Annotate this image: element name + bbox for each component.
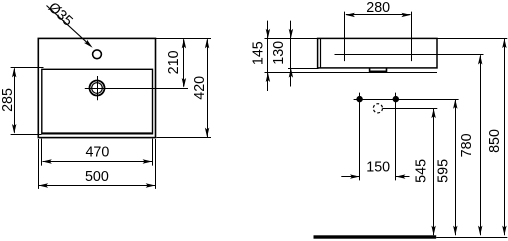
floor extension line [436,237,507,239]
dimension 780 [480,55,482,235]
drain boss under basin [370,68,387,71]
drain outer circle [90,81,105,96]
basin front inner edge (side view) [320,38,322,68]
svg-text:595: 595 [436,159,452,183]
svg-text:145: 145 [250,41,266,65]
dimension 595 [455,100,457,236]
dimension 150 [341,176,359,178]
top edge extension line right [156,38,211,40]
bottom edge extension line right [157,137,212,139]
drain centerline horizontal / extension to 210 dim [85,88,188,90]
supply pipe line right [395,93,397,181]
dimension 130 [290,21,292,87]
dimension 545 [433,109,435,235]
fixing holes centerline / extension to 780 dim [335,54,484,56]
svg-text:470: 470 [85,145,109,161]
top reference line left extension [265,38,319,40]
level line 595 (supply height) [354,99,459,101]
top reference line right extension to 850 dim [437,38,507,40]
svg-text:280: 280 [366,0,390,16]
svg-text:150: 150 [366,159,390,175]
supply pipe line left [359,93,361,181]
dimension 850 [504,39,506,235]
leader line for diameter 35 [47,6,90,45]
front apron bottom line (145 reference) [265,72,438,74]
dimension 285 [11,67,44,69]
waste outlet (hidden) circle [373,104,382,113]
svg-text:500: 500 [85,169,109,185]
drain inner circle [92,83,103,94]
bowl bottom contour line [43,132,152,134]
level line 545 (waste height) [383,108,437,110]
fixing hole tick left / 280 extension [344,12,346,62]
drain centerline vertical [97,76,99,100]
fixing hole tick right / 280 extension [411,12,413,62]
basin outer rim (plan view) [38,38,155,137]
svg-text:210: 210 [166,50,182,74]
dimension 500 [38,139,40,189]
svg-text:420: 420 [192,76,208,100]
svg-text:285: 285 [0,88,16,112]
dimension 420 [207,39,209,137]
dimension 210 [183,39,185,86]
dimension 280 [346,14,411,16]
supply connection point left [356,96,362,102]
dimension 470 [41,139,43,166]
svg-text:850: 850 [487,129,503,153]
basin inner bowl (plan view) [42,69,153,134]
extension line 130 bottom [288,68,319,70]
svg-text:545: 545 [414,159,430,183]
svg-text:780: 780 [459,133,475,157]
label D35 [45,0,76,30]
basin body (side view) [318,38,437,68]
floor line [314,235,437,238]
dimension 145 [267,21,269,91]
faucet hole [93,50,102,59]
svg-text:130: 130 [271,41,287,65]
supply connection point right [393,96,399,102]
